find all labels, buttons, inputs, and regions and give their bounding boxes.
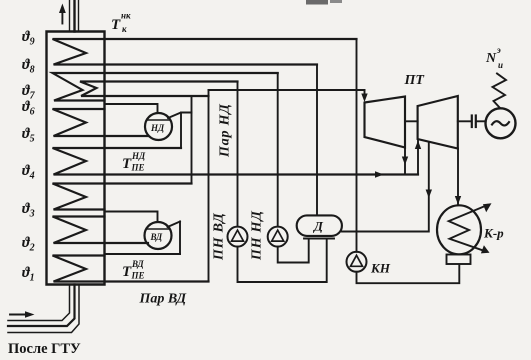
svg-text:э: э: [496, 45, 501, 55]
svg-text:ПН ВД: ПН ВД: [212, 213, 227, 261]
svg-text:нк: нк: [121, 11, 131, 21]
svg-text:К-р: К-р: [483, 226, 504, 241]
svg-text:ВД: ВД: [131, 259, 145, 269]
svg-text:НД: НД: [150, 123, 165, 133]
svg-text:ПН НД: ПН НД: [250, 210, 265, 261]
svg-text:T: T: [111, 17, 121, 33]
svg-text:КН: КН: [370, 261, 391, 276]
svg-text:T: T: [122, 156, 132, 172]
svg-text:и: и: [498, 60, 503, 70]
svg-text:T: T: [122, 264, 132, 280]
svg-text:к: к: [122, 24, 127, 34]
svg-text:Пар НД: Пар НД: [218, 103, 233, 158]
svg-text:НД: НД: [131, 151, 146, 161]
svg-text:После ГТУ: После ГТУ: [8, 341, 81, 357]
svg-text:ВД: ВД: [150, 232, 164, 242]
svg-text:N: N: [485, 51, 497, 66]
svg-text:ПЕ: ПЕ: [131, 163, 145, 173]
svg-text:Пар ВД: Пар ВД: [139, 292, 187, 307]
svg-text:ПТ: ПТ: [404, 73, 426, 88]
svg-text:Д: Д: [313, 219, 324, 234]
svg-text:ПЕ: ПЕ: [131, 271, 145, 281]
